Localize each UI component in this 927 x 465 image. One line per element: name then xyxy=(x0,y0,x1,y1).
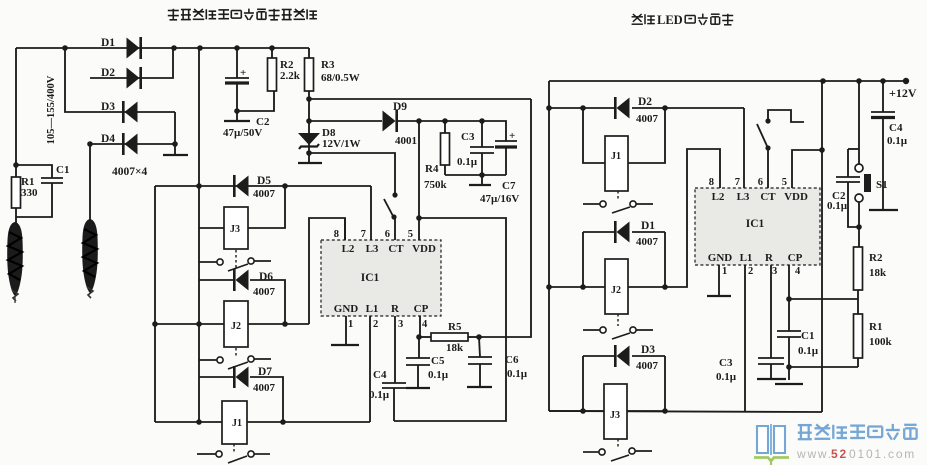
svg-text:D1: D1 xyxy=(641,220,655,232)
watermark url xyxy=(796,447,916,461)
wire D8 to CT switch xyxy=(309,153,395,193)
svg-text:18k: 18k xyxy=(869,267,887,279)
svg-text:7: 7 xyxy=(361,229,366,240)
svg-text:D4: D4 xyxy=(101,133,115,145)
svg-text:2: 2 xyxy=(748,266,753,277)
wire J1 row xyxy=(155,421,222,423)
svg-text:J3: J3 xyxy=(610,410,620,421)
pin 6 right stub xyxy=(758,149,768,188)
diode D2 xyxy=(101,67,141,89)
resistor R2 xyxy=(268,48,301,91)
watermark book icon xyxy=(754,424,789,465)
wire left rail right xyxy=(546,81,552,411)
contact link J1 right xyxy=(617,191,619,200)
svg-text:D9: D9 xyxy=(393,101,407,113)
svg-text:0.1µ: 0.1µ xyxy=(428,369,449,381)
svg-text:5: 5 xyxy=(782,177,787,188)
wire D2 row xyxy=(549,105,614,111)
wire rail continues xyxy=(196,186,202,327)
svg-text:C7: C7 xyxy=(502,180,516,192)
relay J2 right xyxy=(605,259,628,314)
IC IC1 left bottom pin labels xyxy=(334,303,429,315)
switch contact J3 right xyxy=(583,448,652,461)
pin 1 number xyxy=(348,319,353,330)
capacitor C2 xyxy=(223,48,270,139)
svg-text:D1: D1 xyxy=(101,37,115,49)
wire left rail xyxy=(13,48,19,168)
svg-text:R: R xyxy=(391,303,400,315)
svg-text:C3: C3 xyxy=(461,131,475,143)
capacitor C1 right xyxy=(777,330,819,380)
svg-text:0.1µ: 0.1µ xyxy=(887,135,908,147)
wire lamp2 feed xyxy=(89,144,91,220)
pin 2 right number xyxy=(748,266,753,277)
svg-text:1: 1 xyxy=(348,319,353,330)
wire main vertical rail xyxy=(198,48,200,186)
svg-text:IC1: IC1 xyxy=(361,272,380,284)
pin 3 number xyxy=(398,319,403,330)
svg-text:IC1: IC1 xyxy=(746,218,765,230)
svg-text:R3: R3 xyxy=(321,59,335,71)
wire J2 to pin8 xyxy=(309,218,345,324)
wire D1 legs xyxy=(583,232,665,287)
wire top rail right xyxy=(549,78,909,84)
contact link J3 xyxy=(235,250,237,268)
pin 8 right stub xyxy=(709,177,714,188)
pin 4 right number xyxy=(795,266,801,277)
svg-text:0.1µ: 0.1µ xyxy=(507,368,528,380)
switch CT upper contact xyxy=(392,192,397,197)
svg-text:D7: D7 xyxy=(258,366,272,378)
wire D8 anode xyxy=(306,146,312,163)
relay J3 xyxy=(199,186,285,249)
svg-text:18k: 18k xyxy=(446,342,464,354)
ground for IC GND xyxy=(331,344,359,346)
wire right return rail xyxy=(819,81,825,412)
wire J2 row xyxy=(155,323,224,325)
svg-text:4007: 4007 xyxy=(253,188,276,200)
diode D4 xyxy=(101,133,138,155)
svg-text:GND: GND xyxy=(708,252,733,264)
svg-text:0.1µ: 0.1µ xyxy=(457,156,478,168)
wire C2 to R2 xyxy=(237,91,274,111)
svg-text:2.2k: 2.2k xyxy=(280,70,301,82)
svg-text:4007: 4007 xyxy=(636,236,659,248)
svg-text:D6: D6 xyxy=(259,271,273,283)
pin 3 right number xyxy=(772,266,777,277)
contact link J3 right xyxy=(617,439,619,447)
pin 6 stub xyxy=(385,218,395,240)
svg-text:68/0.5W: 68/0.5W xyxy=(321,72,360,84)
svg-text:4: 4 xyxy=(422,319,428,330)
svg-text:J1: J1 xyxy=(232,418,242,429)
svg-text:R2: R2 xyxy=(869,252,883,264)
resistor R1 right xyxy=(854,314,893,367)
svg-text:4007: 4007 xyxy=(636,360,659,372)
label 4007x4 xyxy=(112,166,148,178)
svg-text:R: R xyxy=(765,252,774,264)
wire pin3 stem xyxy=(394,316,396,383)
wire R3 bottom node xyxy=(306,91,312,146)
svg-text:0.1µ: 0.1µ xyxy=(716,371,737,383)
ground for C3 xyxy=(469,175,491,185)
wire VDD feed line xyxy=(309,98,531,100)
ground bar C4 right xyxy=(869,209,898,211)
svg-text:5: 5 xyxy=(408,229,413,240)
wire top rail xyxy=(16,45,309,51)
svg-text:CP: CP xyxy=(414,303,429,315)
diode D2 right xyxy=(615,96,658,125)
switch S1 xyxy=(855,164,888,202)
svg-text:2: 2 xyxy=(373,319,378,330)
svg-text:J1: J1 xyxy=(611,151,621,162)
svg-text:8: 8 xyxy=(709,177,714,188)
wire D9 line xyxy=(309,120,382,122)
diode D1 xyxy=(101,37,141,59)
wire bottom rail right xyxy=(549,408,822,414)
wire S1 feed xyxy=(858,81,860,164)
contact link J1 xyxy=(233,444,235,452)
svg-text:C4: C4 xyxy=(373,369,387,381)
capacitor C3 xyxy=(457,121,494,175)
wire CP sync line xyxy=(479,99,531,337)
wire D3 row xyxy=(583,355,665,357)
svg-text:52: 52 xyxy=(831,447,848,461)
wire D1 row xyxy=(583,231,665,233)
diode D7 xyxy=(234,366,275,394)
IC IC1 right top pin labels xyxy=(712,191,808,203)
svg-text:VDD: VDD xyxy=(412,243,436,255)
wire D2 branch xyxy=(90,48,173,78)
svg-text:1: 1 xyxy=(722,266,727,277)
svg-text:330: 330 xyxy=(21,187,38,199)
svg-text:www.: www. xyxy=(796,447,833,461)
diode D5 xyxy=(234,175,275,200)
svg-text:C1: C1 xyxy=(801,330,814,342)
resistor R5 xyxy=(419,321,482,354)
svg-text:8: 8 xyxy=(334,229,339,240)
touch electrode CT xyxy=(768,110,804,122)
svg-text:D2: D2 xyxy=(638,96,652,108)
svg-text:CT: CT xyxy=(388,243,404,255)
pin 7 right stub xyxy=(735,108,744,188)
svg-text:D2: D2 xyxy=(101,67,115,79)
IC IC1 left top pin labels xyxy=(342,243,436,255)
wire pin4 node xyxy=(416,316,422,340)
switch contact J2 xyxy=(199,356,271,369)
diode D3 right xyxy=(615,344,658,372)
svg-text:L3: L3 xyxy=(737,191,750,203)
watermark site name xyxy=(798,424,917,440)
svg-text:VDD: VDD xyxy=(784,191,808,203)
ground for D8 xyxy=(298,162,322,164)
capacitor C5 xyxy=(406,337,449,388)
wire J1 right leg xyxy=(628,108,665,163)
wire D2 to pin7 xyxy=(632,105,744,111)
svg-text:R4: R4 xyxy=(425,163,439,175)
wire D5 row xyxy=(155,183,371,189)
label +12V xyxy=(889,86,917,100)
capacitor C4 xyxy=(369,369,406,421)
svg-text:L1: L1 xyxy=(366,303,379,315)
pin 5 right stub xyxy=(782,150,823,188)
wire J2 to pin8 xyxy=(628,149,720,290)
svg-text:4: 4 xyxy=(795,266,801,277)
wire pin 2 right xyxy=(744,265,746,412)
svg-text:0.1µ: 0.1µ xyxy=(827,200,848,212)
svg-text:L2: L2 xyxy=(342,243,355,255)
label 105-155/400V xyxy=(46,75,57,144)
svg-text:4007×4: 4007×4 xyxy=(112,166,148,178)
svg-text:+12V: +12V xyxy=(889,86,917,100)
ground bar C1 right xyxy=(775,383,803,385)
pin 4 number xyxy=(422,319,428,330)
switch contact J3 xyxy=(199,258,271,271)
contact link J2 xyxy=(235,348,237,356)
pin 5 stub xyxy=(408,121,422,240)
svg-text:47µ/16V: 47µ/16V xyxy=(480,193,519,205)
switch contact J1 xyxy=(197,451,270,463)
diode D3 xyxy=(101,101,138,123)
zener diode D8 xyxy=(298,127,361,150)
pin 7 stub xyxy=(361,186,371,240)
svg-text:L1: L1 xyxy=(740,252,753,264)
capacitor C2 right xyxy=(827,149,860,227)
IC IC1 right bottom pin labels xyxy=(708,252,803,264)
svg-text:CT: CT xyxy=(760,191,776,203)
wire VDD return xyxy=(394,218,506,421)
wire lamp1 top xyxy=(15,165,17,177)
svg-text:LED: LED xyxy=(657,13,683,27)
wire D4 line xyxy=(87,141,178,147)
lamp load 2 xyxy=(82,219,98,298)
svg-text:L3: L3 xyxy=(366,243,379,255)
ground for D3 D4 return xyxy=(163,154,188,156)
wire pin 1 right ground xyxy=(718,265,720,296)
wire J1 to pin2 xyxy=(369,316,371,422)
svg-text:4007: 4007 xyxy=(636,113,659,125)
wire D3 branch xyxy=(65,48,175,155)
diode D9 xyxy=(383,101,418,147)
svg-text:3: 3 xyxy=(398,319,403,330)
svg-text:J2: J2 xyxy=(231,321,241,332)
resistor R3 xyxy=(305,48,360,91)
resistor R4 xyxy=(424,121,450,191)
diode D1 right xyxy=(615,220,658,248)
pin 8 stub xyxy=(334,218,345,240)
capacitor C7 xyxy=(480,121,519,205)
svg-text:12V/1W: 12V/1W xyxy=(322,138,361,150)
svg-text:105—155/400V: 105—155/400V xyxy=(46,75,57,144)
capacitor C6 xyxy=(468,337,528,387)
IC IC1 left body xyxy=(321,240,441,316)
wire left sub rail xyxy=(152,186,158,422)
wire J2 row r xyxy=(549,284,605,290)
wire pin 3 right xyxy=(770,265,772,358)
ground for IC2 GND xyxy=(707,295,731,297)
svg-text:J2: J2 xyxy=(611,285,621,296)
wire D9 cathode rail xyxy=(398,118,504,124)
switch CT right blade xyxy=(757,124,767,146)
relay J3 right xyxy=(549,384,665,439)
resistor R1 xyxy=(12,176,39,208)
svg-text:4007: 4007 xyxy=(253,286,276,298)
relay J1 xyxy=(222,401,370,444)
svg-text:C5: C5 xyxy=(431,355,445,367)
svg-text:7: 7 xyxy=(735,177,740,188)
svg-text:D5: D5 xyxy=(257,175,271,187)
pin 2 number xyxy=(373,319,378,330)
ground bar C6 xyxy=(467,386,492,388)
svg-text:C6: C6 xyxy=(505,354,519,366)
capacitor C3 right xyxy=(716,357,784,383)
wire D6 row xyxy=(199,280,288,327)
capacitor C4 right xyxy=(871,81,908,210)
title: DC LED lamp application xyxy=(632,13,734,27)
contact link J2 right xyxy=(617,314,619,326)
ground for C2 xyxy=(224,120,250,122)
svg-text:750k: 750k xyxy=(424,179,448,191)
ground bar C5 xyxy=(406,387,430,389)
svg-text:CP: CP xyxy=(788,252,803,264)
svg-text:C3: C3 xyxy=(719,357,733,369)
svg-text:4001: 4001 xyxy=(395,135,417,147)
svg-text:R1: R1 xyxy=(869,321,882,333)
IC IC1 right body xyxy=(695,188,820,265)
wire rail to J1 rows xyxy=(196,324,202,425)
title: AC lamp digital segment switch application xyxy=(168,9,317,20)
svg-text:C1: C1 xyxy=(56,164,69,176)
resistor R2 right xyxy=(854,247,888,314)
wire pin1 ground xyxy=(345,316,347,345)
switch CT right lower contact xyxy=(765,145,770,150)
svg-text:J3: J3 xyxy=(230,224,240,235)
switch CT blade xyxy=(384,199,393,216)
svg-text:R5: R5 xyxy=(448,321,462,333)
wire J1 left leg xyxy=(583,108,605,163)
svg-text:GND: GND xyxy=(334,303,359,315)
svg-text:0.1µ: 0.1µ xyxy=(369,389,390,401)
wire R1 bottom xyxy=(15,208,17,224)
switch contact J1 right xyxy=(583,201,653,213)
wire D7 row xyxy=(199,377,286,425)
svg-text:L2: L2 xyxy=(712,191,725,203)
svg-text:47µ/50V: 47µ/50V xyxy=(223,127,262,139)
lamp load 1 xyxy=(7,222,23,303)
relay J1 right xyxy=(605,136,628,191)
switch contact J2 right xyxy=(583,327,653,339)
capacitor C1 xyxy=(16,164,69,217)
ground bar C3 right xyxy=(757,378,786,380)
wire pin 4 right xyxy=(786,265,792,331)
svg-text:6: 6 xyxy=(758,177,763,188)
svg-text:4007: 4007 xyxy=(253,382,276,394)
relay J2 xyxy=(224,301,309,347)
svg-text:D3: D3 xyxy=(641,344,655,356)
wire C1 to R1 bottom xyxy=(789,366,858,368)
svg-text:C4: C4 xyxy=(889,122,903,134)
pin 1 right number xyxy=(722,266,727,277)
wire D3 legs xyxy=(583,356,665,411)
switch CT right upper contact xyxy=(765,118,770,123)
svg-text:0.1µ: 0.1µ xyxy=(798,345,819,357)
diode D6 xyxy=(234,269,275,298)
svg-text:0101.com: 0101.com xyxy=(849,447,916,461)
wire S1 lower xyxy=(856,202,862,247)
svg-text:100k: 100k xyxy=(869,336,893,348)
wire CP to R2r xyxy=(789,298,858,300)
svg-text:S1: S1 xyxy=(876,179,888,191)
svg-text:3: 3 xyxy=(772,266,777,277)
wire bottom supply rail xyxy=(445,165,506,178)
svg-text:D3: D3 xyxy=(101,101,115,113)
switch CT lower contact xyxy=(391,214,396,219)
svg-text:6: 6 xyxy=(385,229,390,240)
